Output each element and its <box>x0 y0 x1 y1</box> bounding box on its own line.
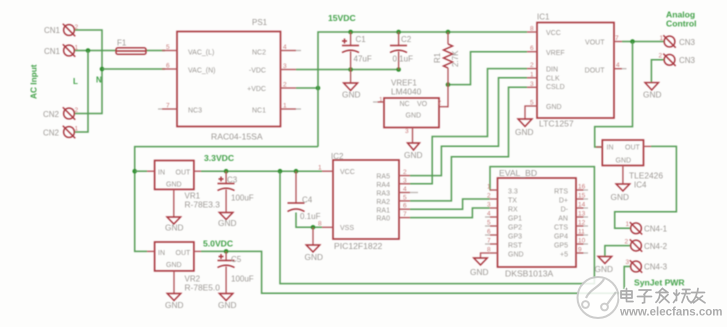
connector CN2 pin2 <box>63 107 75 119</box>
EVAL pin15 stub <box>576 198 588 200</box>
svg-text:PS1: PS1 <box>252 18 268 27</box>
svg-text:2: 2 <box>625 239 629 246</box>
PS1 pin 2 stub <box>281 87 297 89</box>
svg-text:NC: NC <box>400 101 410 108</box>
svg-text:VAC_(L): VAC_(L) <box>188 50 214 57</box>
svg-text:GND: GND <box>643 90 661 100</box>
svg-text:8: 8 <box>487 247 491 254</box>
svg-text:1: 1 <box>318 165 322 172</box>
svg-text:CN4-1: CN4-1 <box>644 225 668 234</box>
rail splitter TLE2426 IC4 box <box>602 140 643 166</box>
capacitor C4 <box>288 171 305 211</box>
IC2 pin3 RA4 stub <box>399 183 410 185</box>
svg-text:15: 15 <box>578 193 586 200</box>
IC2 pin2 RA5 stub <box>399 175 410 177</box>
svg-text:RA1: RA1 <box>376 207 390 214</box>
svg-text:VAC_(N): VAC_(N) <box>188 68 215 75</box>
wire N to PS1 pin6 <box>102 68 165 70</box>
svg-text:14: 14 <box>578 202 586 209</box>
svg-text:C1: C1 <box>356 35 367 44</box>
svg-text:RA3: RA3 <box>376 191 390 198</box>
svg-text:1: 1 <box>379 97 383 104</box>
svg-text:IC2: IC2 <box>331 152 344 161</box>
capacitor C3 <box>218 171 235 212</box>
svg-text:5: 5 <box>487 220 491 227</box>
svg-text:15VDC: 15VDC <box>328 13 356 23</box>
svg-text:GND: GND <box>218 218 236 228</box>
IC1 pin6 VREF stub <box>527 51 537 53</box>
svg-text:5: 5 <box>166 44 170 51</box>
svg-text:6: 6 <box>166 63 170 70</box>
EVAL pin16 stub <box>576 189 588 191</box>
IC2 pin8 VSS stub <box>322 226 333 228</box>
fuse F1 <box>116 48 146 55</box>
svg-text:VCC: VCC <box>340 169 355 176</box>
mcu IC2 PIC12F1822 box <box>333 160 399 239</box>
svg-text:C2: C2 <box>401 35 412 44</box>
node VR1 input junction <box>132 169 137 174</box>
svg-text:OUT: OUT <box>176 170 192 177</box>
PS1 pin 6 stub <box>162 68 177 70</box>
svg-text:CN3: CN3 <box>679 56 696 65</box>
wire RA5 to CLK <box>410 78 527 176</box>
capacitor C1 <box>342 32 359 70</box>
connector CN4-3 <box>630 260 642 272</box>
connector CN4-2 <box>630 239 642 251</box>
node rail R1 <box>446 30 451 35</box>
svg-text:13: 13 <box>578 211 586 218</box>
EVAL pin10 stub <box>576 243 588 245</box>
node 3.3V branch down <box>278 169 283 174</box>
IC2 pin5 RA2 stub <box>399 200 410 202</box>
svg-text:GND: GND <box>166 262 182 269</box>
ground GND below EVAL pin8 <box>474 258 488 265</box>
EVAL pin2 stub <box>490 198 498 200</box>
EVAL pin5 stub <box>485 225 498 227</box>
svg-text:RST: RST <box>508 243 523 250</box>
wire 5.0VDC rail <box>201 251 630 293</box>
svg-text:4: 4 <box>283 44 287 51</box>
ground GND below C1 <box>344 70 358 91</box>
IC2 pin6 RA1 stub <box>399 208 410 210</box>
svg-text:R-78E3.3: R-78E3.3 <box>185 200 221 210</box>
svg-text:3.3VDC: 3.3VDC <box>204 153 234 163</box>
wire 15VDC rail <box>318 32 527 147</box>
EVAL pin4 stub <box>485 216 498 218</box>
svg-text:4: 4 <box>616 62 620 69</box>
svg-text:7: 7 <box>403 211 407 218</box>
wire N line to CN2-2 <box>75 69 103 114</box>
connector CN4-1 <box>630 222 642 234</box>
svg-text:2: 2 <box>75 107 79 114</box>
wire EVAL GND pin down <box>481 253 490 258</box>
svg-text:IC1: IC1 <box>537 13 550 22</box>
IC1 pin7 VOUT stub <box>614 41 622 43</box>
node C1 bottom junction <box>348 67 353 72</box>
IC1 pin2 DIN stub <box>527 68 537 70</box>
wire CN1-2 to N vertical <box>75 30 103 69</box>
VR2 GND pin down <box>167 271 181 301</box>
wire branch to VR1 IN <box>135 170 147 172</box>
VR1 OUT stub <box>194 170 201 172</box>
svg-text:CTS: CTS <box>554 225 568 232</box>
svg-text:12: 12 <box>578 220 586 227</box>
wire 3.3VDC rail <box>201 170 322 172</box>
VR1 IN stub <box>147 170 155 172</box>
svg-text:CN4-2: CN4-2 <box>644 242 668 251</box>
EVAL pin7 stub <box>485 243 498 245</box>
VREF1 pin2 VO stub <box>439 106 448 108</box>
node C4 top <box>294 169 299 174</box>
PS1 pin 4 stub NC2 <box>281 50 302 52</box>
svg-text:EVAL_BD: EVAL_BD <box>499 168 537 178</box>
svg-text:7: 7 <box>615 35 619 42</box>
wire R1 bottom to VREF pin of IC1 <box>448 52 527 85</box>
svg-text:47uF: 47uF <box>354 55 372 64</box>
svg-text:RA0: RA0 <box>376 216 390 223</box>
svg-text:N: N <box>96 76 102 85</box>
svg-text:LTC1257: LTC1257 <box>539 119 574 129</box>
svg-text:SynJet PWR: SynJet PWR <box>634 278 685 288</box>
svg-text:DIN: DIN <box>546 67 558 74</box>
svg-text:1: 1 <box>660 35 664 42</box>
svg-text:GND: GND <box>515 127 533 137</box>
svg-text:GP3: GP3 <box>508 234 522 241</box>
svg-text:+VDC: +VDC <box>247 86 266 93</box>
svg-text:OUT: OUT <box>625 145 641 152</box>
svg-text:DOUT: DOUT <box>585 68 606 75</box>
svg-text:1: 1 <box>626 221 630 228</box>
svg-text:GND: GND <box>546 104 562 111</box>
svg-text:1: 1 <box>283 103 287 110</box>
wire VREF1 VO up to R1 bottom <box>447 85 448 107</box>
ground GND below C3 <box>219 213 233 220</box>
svg-text:LM4040: LM4040 <box>391 87 422 97</box>
svg-text:GND: GND <box>166 182 182 189</box>
wire IC1 GND pin down <box>525 106 527 119</box>
wire CN3-2 to GND <box>651 60 664 83</box>
ground GND below C5 <box>219 294 233 301</box>
connector CN3 pin1 <box>663 35 675 47</box>
svg-text:D+: D+ <box>559 198 568 205</box>
svg-text:DKSB1013A: DKSB1013A <box>505 269 554 279</box>
node R1 bottom junction <box>446 82 451 87</box>
IC2 pin4 RA3 stub <box>399 192 418 194</box>
svg-text:TX: TX <box>508 198 517 205</box>
node C5 top <box>224 249 229 254</box>
svg-text:7: 7 <box>487 238 491 245</box>
VR2 OUT stub <box>194 250 201 252</box>
wire CN1-1 to fuse <box>75 50 117 52</box>
EVAL pin6 stub <box>485 234 498 236</box>
svg-text:CN2: CN2 <box>43 129 60 138</box>
svg-text:NC2: NC2 <box>252 50 266 57</box>
TLE OUT stub <box>644 145 652 147</box>
svg-text:6: 6 <box>530 45 534 52</box>
ground GND below IC2 VSS <box>306 227 320 252</box>
node VSS GND junction <box>311 225 316 230</box>
svg-text:2: 2 <box>403 169 407 176</box>
node VOUT junction <box>630 39 635 44</box>
capacitor C2 <box>390 32 407 70</box>
svg-text:GND: GND <box>305 252 323 262</box>
capacitor C5 <box>218 251 235 293</box>
svg-text:100uF: 100uF <box>231 194 254 203</box>
EVAL pin11 stub <box>576 234 588 236</box>
svg-text:16: 16 <box>578 184 586 191</box>
svg-text:GND: GND <box>165 300 183 310</box>
svg-text:L: L <box>73 77 78 86</box>
svg-text:1: 1 <box>75 126 79 133</box>
svg-text:5: 5 <box>403 194 407 201</box>
svg-text:8: 8 <box>530 26 534 33</box>
svg-text:C5: C5 <box>231 255 242 264</box>
node C3 top <box>224 169 229 174</box>
svg-text:3: 3 <box>626 259 630 266</box>
svg-text:10: 10 <box>578 238 586 245</box>
svg-text:GND: GND <box>508 252 524 259</box>
VR1 GND pin down <box>167 189 181 224</box>
svg-text:CN3: CN3 <box>679 38 696 47</box>
EVAL pin13 stub <box>576 216 588 218</box>
svg-text:2: 2 <box>659 53 663 60</box>
svg-text:3: 3 <box>283 63 287 70</box>
svg-text:CN2: CN2 <box>43 110 60 119</box>
svg-text:2: 2 <box>487 193 491 200</box>
svg-text:C4: C4 <box>302 196 313 205</box>
svg-text:TLE2426: TLE2426 <box>629 171 663 181</box>
svg-text:VOUT: VOUT <box>585 40 605 47</box>
svg-text:IN: IN <box>158 170 165 177</box>
wire CN4-2 to GND <box>605 246 631 257</box>
regulator VR2 box <box>155 242 194 271</box>
svg-text:AN: AN <box>558 216 568 223</box>
svg-text:VCC: VCC <box>546 30 561 37</box>
wire -VDC net PS1 pin3 to C1 C2 <box>296 69 399 71</box>
node L junction <box>86 48 91 53</box>
svg-text:GND: GND <box>611 192 629 202</box>
svg-text:4: 4 <box>403 186 407 193</box>
VREF1 pin1 NC stub <box>373 101 384 103</box>
svg-text:7: 7 <box>166 103 170 110</box>
svg-text:2: 2 <box>283 82 287 89</box>
svg-text:8: 8 <box>318 221 322 228</box>
svg-text:5.0VDC: 5.0VDC <box>203 239 233 249</box>
EVAL pin9 stub <box>576 252 588 254</box>
svg-text:R1: R1 <box>433 52 442 63</box>
node +VDC junction <box>316 86 321 91</box>
PS1 pin 5 stub <box>162 50 177 52</box>
svg-text:CSLD: CSLD <box>546 84 565 91</box>
svg-text:3: 3 <box>403 177 407 184</box>
EVAL pin1 stub <box>490 189 498 191</box>
PS1 pin 3 stub <box>281 69 297 71</box>
svg-text:GND: GND <box>342 90 360 100</box>
svg-text:R-78E5.0: R-78E5.0 <box>185 283 221 293</box>
VR2 IN stub <box>147 250 155 252</box>
TLE GND pin down <box>616 166 630 192</box>
svg-text:2.7K: 2.7K <box>451 50 460 67</box>
svg-text:GND: GND <box>616 158 632 165</box>
svg-text:GND: GND <box>404 150 422 160</box>
svg-text:2: 2 <box>75 24 79 31</box>
node rail C2 <box>396 30 401 35</box>
svg-text:RX: RX <box>508 207 518 214</box>
PS1 pin 1 stub NC1 <box>281 108 302 110</box>
VREF1 GND pin down <box>408 128 420 151</box>
dac IC1 LTC1257 box <box>537 23 614 119</box>
svg-text:100uF: 100uF <box>231 275 254 284</box>
svg-text:GP1: GP1 <box>508 216 522 223</box>
svg-text:-VDC: -VDC <box>249 68 266 75</box>
wire IC1 VOUT to CN3-1 <box>622 41 664 43</box>
wire TLE OUT to CN4-1 <box>615 146 677 228</box>
wire RA2 to CSLD <box>410 87 527 201</box>
watermark logo circle <box>578 277 619 318</box>
wire fuse to PS1 pin5 <box>146 50 165 52</box>
svg-text:RA4: RA4 <box>376 182 390 189</box>
resistor R1 <box>444 32 453 85</box>
svg-text:C3: C3 <box>227 176 238 185</box>
svg-text:NC1: NC1 <box>252 108 266 115</box>
connector CN1 pin1 <box>63 44 75 56</box>
svg-text:www.elecfans.com: www.elecfans.com <box>619 307 722 319</box>
node C2 bottom junction <box>396 67 401 72</box>
IC2 pin1 VCC stub <box>322 170 333 172</box>
svg-text:GP2: GP2 <box>508 225 522 232</box>
connector CN3 pin2 <box>663 54 675 66</box>
svg-text:RA5: RA5 <box>376 174 390 181</box>
svg-text:11: 11 <box>578 229 585 236</box>
wire +VDC PS1 pin2 to 15V vertical <box>296 87 318 89</box>
svg-text:PIC12F1822: PIC12F1822 <box>334 241 382 251</box>
power-supply PS1 box <box>177 32 281 127</box>
svg-text:F1: F1 <box>117 39 127 48</box>
svg-text:IN: IN <box>158 250 165 257</box>
svg-text:CN1: CN1 <box>44 26 61 35</box>
EVAL pin14 stub <box>576 207 588 209</box>
svg-text:0.1uF: 0.1uF <box>393 55 414 64</box>
ground GND below CN4-2 <box>598 257 612 264</box>
svg-text:1: 1 <box>75 45 79 52</box>
svg-text:3: 3 <box>487 202 491 209</box>
svg-text:2: 2 <box>530 62 534 69</box>
svg-text:GP5: GP5 <box>554 243 568 250</box>
IC2 pin7 RA0 stub <box>399 217 410 219</box>
svg-text:NC3: NC3 <box>188 108 202 115</box>
svg-text:RTS: RTS <box>554 189 568 196</box>
wire L line down to CN2-1 <box>75 51 89 133</box>
ground GND below IC1 pin5 <box>518 119 532 127</box>
svg-text:2: 2 <box>438 100 442 107</box>
EVAL pin8 stub <box>490 252 498 254</box>
svg-text:5: 5 <box>530 100 534 107</box>
svg-text:+5: +5 <box>560 252 568 259</box>
svg-text:6: 6 <box>403 203 407 210</box>
IC1 pin1 CLK stub <box>527 77 537 79</box>
ground GND below CN3-2 <box>645 83 659 90</box>
svg-text:6: 6 <box>487 229 491 236</box>
regulator VR1 box <box>155 161 194 190</box>
svg-text:RA2: RA2 <box>376 199 390 206</box>
wire C4 bottom to IC2 VSS <box>296 213 322 228</box>
svg-text:GP4: GP4 <box>554 234 568 241</box>
svg-text:CN1: CN1 <box>44 47 61 56</box>
svg-text:9: 9 <box>578 247 582 254</box>
svg-text:D-: D- <box>561 207 569 214</box>
connector CN1 pin2 <box>63 24 75 36</box>
wire VOUT down to TLE2426 IN <box>595 42 633 148</box>
wire RA1 to TX <box>410 199 490 209</box>
svg-text:4: 4 <box>487 211 491 218</box>
wire RA4 to DIN <box>410 69 527 184</box>
svg-text:1: 1 <box>487 184 491 191</box>
svg-text:OUT: OUT <box>176 250 192 257</box>
connector CN2 pin1 <box>63 126 75 138</box>
TLE IN stub <box>596 146 602 148</box>
IC1 pin5 GND stub <box>527 105 537 107</box>
svg-text:GND: GND <box>218 300 236 310</box>
svg-text:GND: GND <box>470 267 488 277</box>
svg-text:CLK: CLK <box>546 76 560 83</box>
svg-text:1: 1 <box>530 72 534 79</box>
wire 15V feed to regulators <box>135 147 318 252</box>
wire 3.3V long branch to EVAL_BD pin1 <box>280 167 594 284</box>
node N junction <box>100 67 105 72</box>
svg-text:GND: GND <box>595 264 613 274</box>
svg-text:IC4: IC4 <box>634 181 647 190</box>
svg-text:VO: VO <box>417 101 428 108</box>
svg-text:3: 3 <box>405 128 409 135</box>
vref LM4040 VREF1 box <box>384 98 439 128</box>
svg-text:Control: Control <box>666 19 697 29</box>
svg-text:VSS: VSS <box>340 225 354 232</box>
PS1 pin 7 stub NC3 <box>158 108 177 110</box>
svg-text:AC Input: AC Input <box>29 64 39 99</box>
svg-text:GND: GND <box>406 113 422 120</box>
svg-text:3.3: 3.3 <box>508 189 518 196</box>
IC1 pin3 CSLD stub <box>527 86 537 88</box>
svg-text:CN4-3: CN4-3 <box>644 263 668 272</box>
svg-text:RAC04-15SA: RAC04-15SA <box>211 132 263 142</box>
wire RA0 to RX <box>410 208 490 218</box>
watermark text <box>619 288 722 318</box>
EVAL pin12 stub <box>576 225 588 227</box>
svg-text:3: 3 <box>530 81 534 88</box>
svg-text:GND: GND <box>165 223 183 233</box>
IC1 pin4 DOUT stub <box>614 68 627 70</box>
node rail C1 <box>348 30 353 35</box>
svg-text:IN: IN <box>607 145 614 152</box>
eval board EVAL_BD box <box>498 178 577 267</box>
IC1 pin8 VCC stub <box>527 31 537 33</box>
EVAL pin3 stub <box>490 207 498 209</box>
svg-text:VREF: VREF <box>546 50 565 57</box>
